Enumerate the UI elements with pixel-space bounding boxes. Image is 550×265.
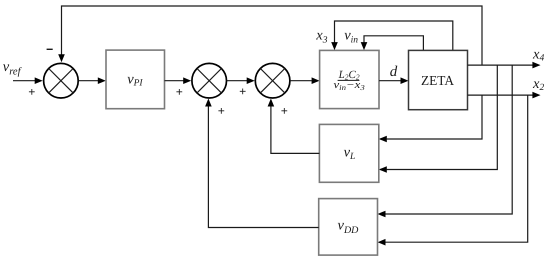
wire vDD output to S2 bottom bbox=[208, 106, 318, 228]
svg-text:+: + bbox=[176, 85, 183, 99]
wire vref input to S1 bbox=[13, 80, 35, 82]
arrowhead into vPI bbox=[98, 77, 106, 84]
arrowhead x3 into block G top bbox=[331, 42, 338, 50]
arrowhead x4 bbox=[532, 62, 540, 69]
wire d from block G to ZETA bbox=[379, 80, 401, 82]
wire S1 to block vPI bbox=[78, 80, 98, 82]
svg-text:ZETA: ZETA bbox=[421, 73, 454, 88]
arrowhead x2 bbox=[532, 92, 540, 99]
block ZETA bbox=[409, 50, 468, 109]
label minus sign bbox=[47, 48, 53, 50]
arrowhead into vL input 1 bbox=[379, 136, 387, 143]
summing junction S3 bbox=[255, 63, 290, 98]
wire feedback x4 to block vDD input 1 bbox=[385, 65, 512, 214]
summing junction S1 bbox=[44, 63, 79, 98]
wire output x2 bbox=[468, 94, 534, 96]
block vDD bbox=[319, 199, 378, 256]
arrowhead into vDD input 2 bbox=[378, 239, 386, 246]
wire S2 to summing junction S3 bbox=[227, 80, 247, 82]
block vL bbox=[319, 124, 378, 182]
svg-text:+: + bbox=[218, 104, 225, 118]
arrowhead into S2 left bbox=[183, 77, 191, 84]
wire vL output to S3 bottom bbox=[271, 106, 320, 153]
arrowhead into block G bbox=[312, 77, 320, 84]
summing junction S2 bbox=[192, 63, 227, 98]
svg-text:d: d bbox=[390, 64, 398, 80]
fraction bar bbox=[338, 79, 360, 81]
wire feedback x4 to block vL input 2 bbox=[387, 65, 498, 169]
svg-text:+: + bbox=[28, 85, 35, 99]
wire top feedback from x4 line to summing junction S1 bbox=[62, 6, 483, 65]
wire x3 feedback from ZETA top bbox=[335, 21, 453, 50]
arrowhead into S1 left bbox=[35, 77, 43, 84]
arrowhead into vL input 2 bbox=[379, 166, 387, 173]
arrowhead into S2 bottom bbox=[205, 99, 212, 107]
wire feedback x2 to block vDD input 2 bbox=[385, 95, 527, 242]
wire S3 to block G bbox=[290, 80, 312, 82]
svg-text:+: + bbox=[281, 104, 288, 118]
arrowhead into S3 left bbox=[247, 77, 255, 84]
arrowhead vin into block G top bbox=[361, 42, 368, 50]
arrowhead into S1 top bbox=[58, 54, 65, 62]
wire feedback x2 to block vL input 1 bbox=[387, 95, 482, 139]
svg-text:+: + bbox=[239, 84, 246, 98]
wire output x4 bbox=[468, 64, 534, 66]
wire vPI to summing junction S2 bbox=[165, 80, 184, 82]
arrowhead into vDD input 1 bbox=[378, 211, 386, 218]
wire vin feedback from ZETA top bbox=[364, 36, 423, 51]
arrowhead into S3 bottom bbox=[268, 99, 275, 107]
svg-text:vin−x3: vin−x3 bbox=[334, 79, 365, 92]
block G transfer function L2C2/(vin-x3) bbox=[320, 50, 379, 108]
block vPI bbox=[106, 50, 165, 109]
arrowhead into ZETA bbox=[401, 77, 409, 84]
